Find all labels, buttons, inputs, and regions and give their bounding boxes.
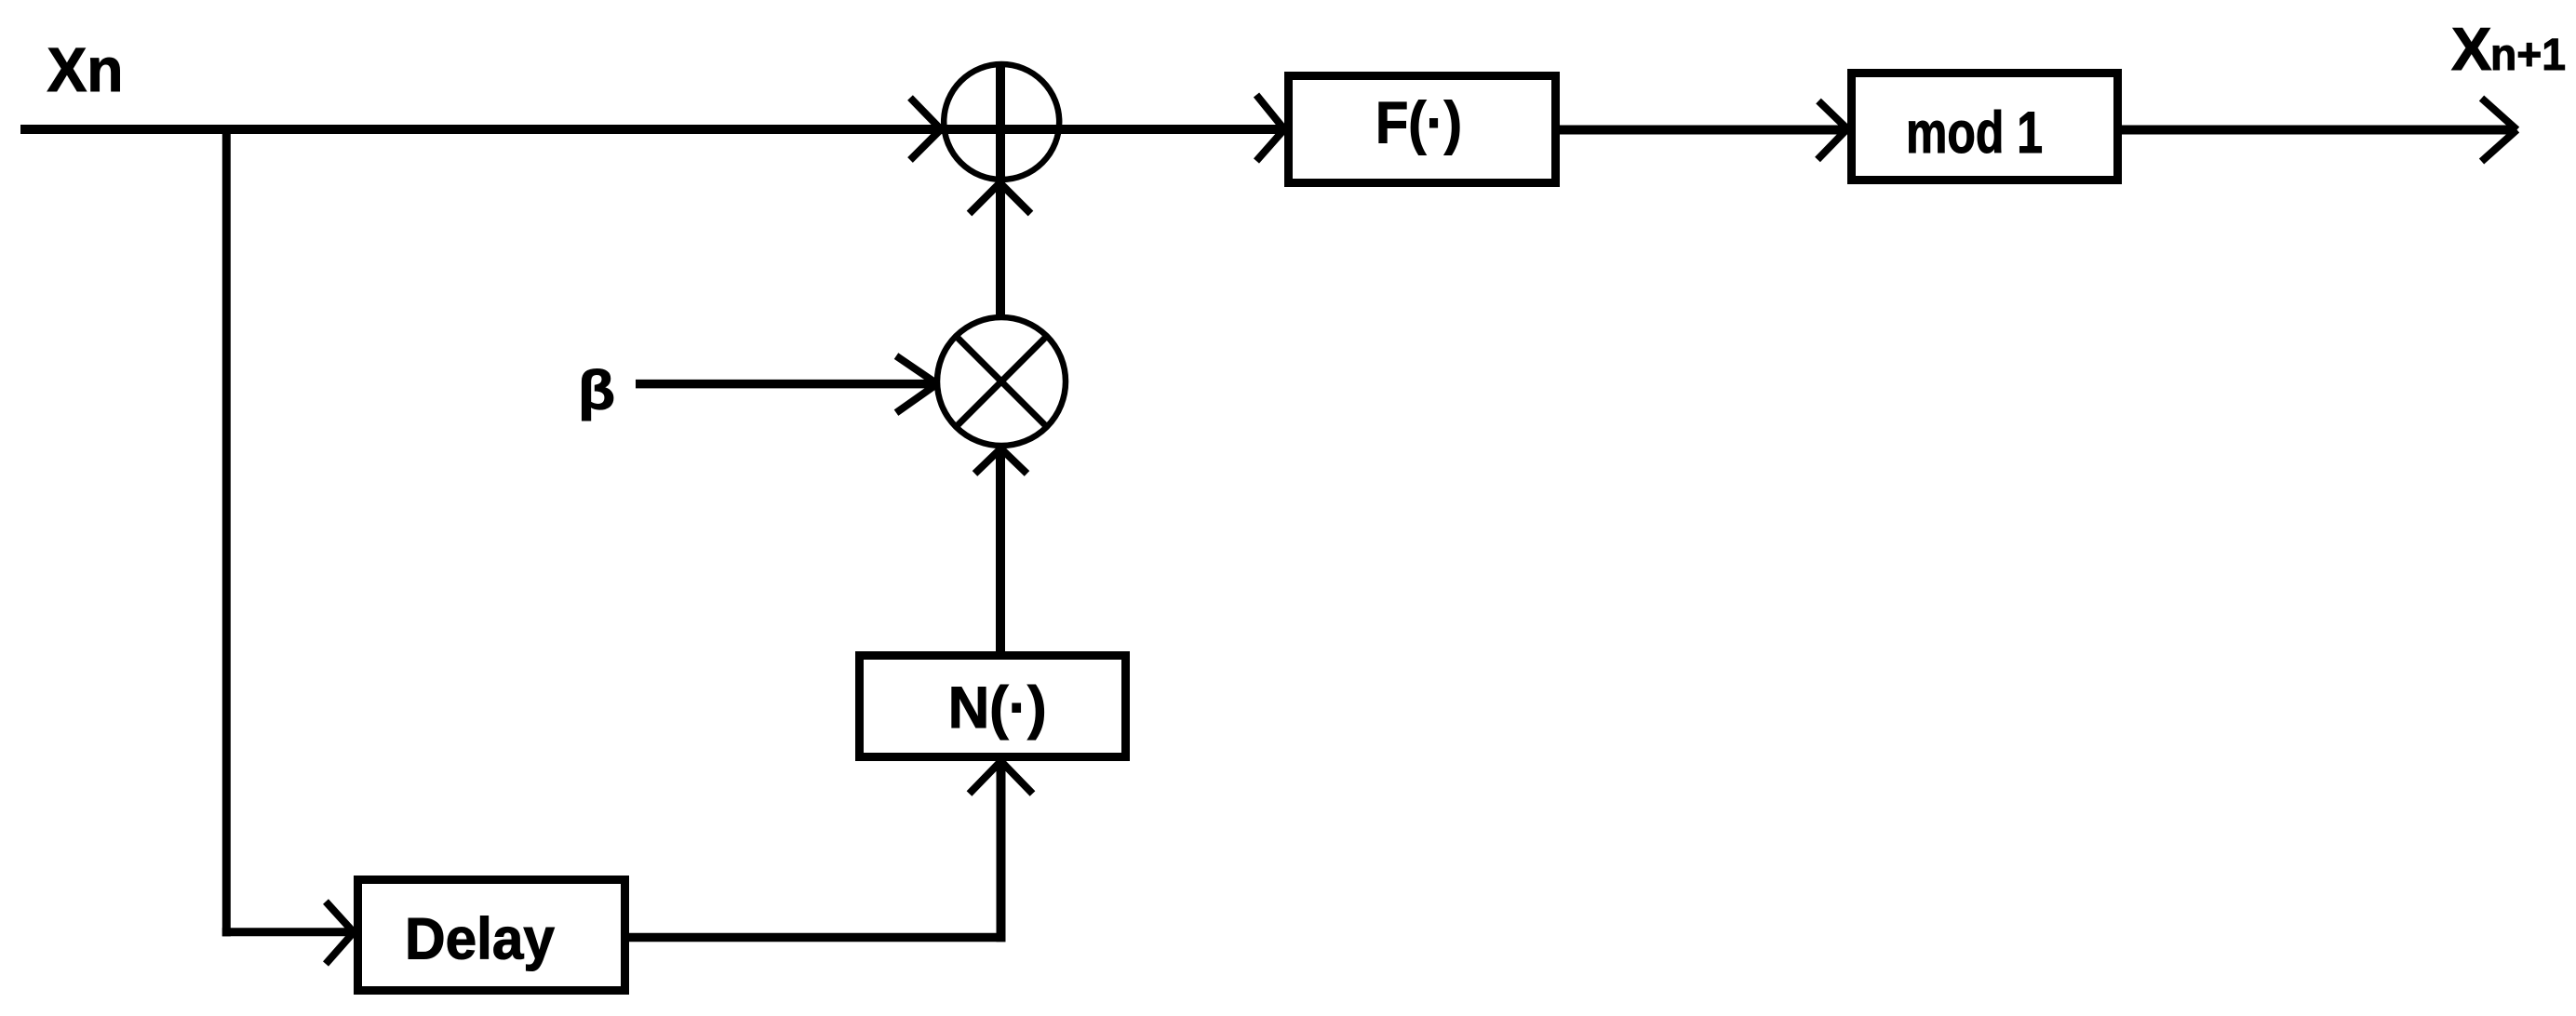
svg-text:mod 1: mod 1 [1906,100,2043,166]
multiplier circle [937,317,1066,446]
svg-text:X: X [2451,15,2491,83]
wire N up to multiplier [996,450,1005,651]
wire beta to multiplier [636,380,938,389]
wire mod 1 to output [2122,126,2515,135]
arrowhead into mod 1 [1818,101,1847,160]
arrowhead into multiplier left [896,356,937,413]
svg-text:β: β [578,360,615,421]
wire multiplier up to adder [996,182,1005,318]
arrowhead into Delay [326,902,354,964]
svg-text:Delay: Delay [405,907,555,972]
block N [860,656,1126,757]
arrowhead into adder left [910,98,941,160]
wire branch down from input line [222,125,231,936]
svg-text:n+1: n+1 [2490,31,2566,80]
arrowhead into N bottom [970,761,1033,794]
adder plus horizontal bar [941,125,1063,134]
svg-text:Xn: Xn [47,35,124,105]
block F [1289,76,1556,183]
summing junction adder circle [944,64,1059,180]
wire adder to F [1062,125,1286,134]
arrowhead into F [1256,95,1284,161]
wire Delay output to riser [629,933,1006,942]
wire input from Xn to adder [20,125,943,134]
svg-text:F(·): F(·) [1375,91,1462,156]
multiplier X cross [956,336,1047,427]
arrowhead into adder bottom [970,183,1031,214]
adder plus vertical bar [996,62,1005,182]
wire F to mod 1 [1560,126,1849,135]
block Delay [358,880,625,991]
arrowhead into multiplier bottom [975,448,1027,474]
wire branch corner to Delay [222,928,354,936]
block mod 1 [1852,74,2118,180]
svg-text:N(·): N(·) [948,675,1047,741]
wire riser up into N [997,759,1006,942]
arrowhead output [2482,99,2517,162]
